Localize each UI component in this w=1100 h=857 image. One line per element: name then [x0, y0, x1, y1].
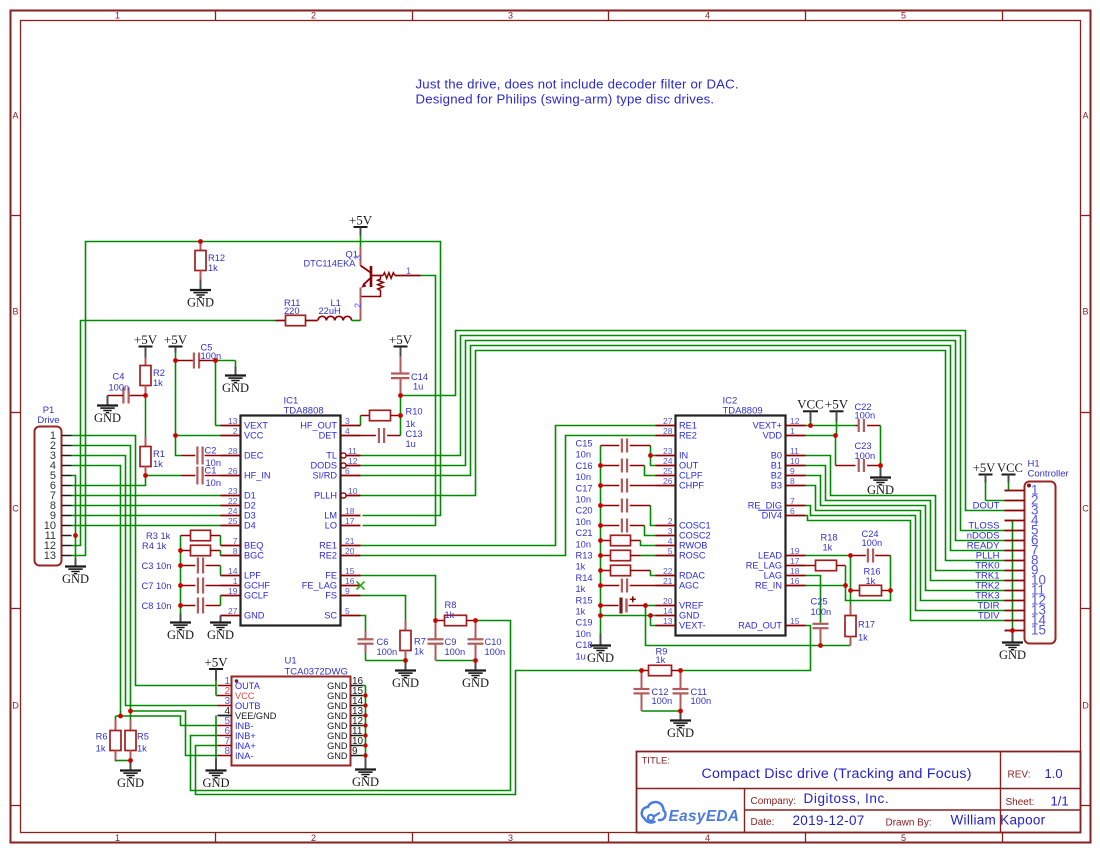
svg-text:13: 13	[663, 616, 673, 626]
svg-text:10: 10	[348, 486, 358, 496]
svg-text:C15: C15	[576, 439, 593, 449]
svg-text:RE2: RE2	[679, 431, 697, 441]
svg-text:B3: B3	[771, 481, 782, 491]
svg-text:R2: R2	[153, 368, 165, 378]
svg-text:GND: GND	[94, 411, 121, 425]
svg-text:C19: C19	[576, 618, 593, 628]
svg-text:1k: 1k	[866, 576, 876, 586]
svg-text:24: 24	[663, 456, 673, 466]
svg-text:RE2: RE2	[319, 551, 337, 561]
svg-text:Controller: Controller	[1028, 469, 1069, 480]
svg-text:RE_IN: RE_IN	[755, 581, 782, 591]
svg-text:GND: GND	[587, 651, 614, 665]
svg-text:11: 11	[348, 446, 357, 456]
svg-text:22: 22	[663, 566, 673, 576]
svg-text:GND: GND	[187, 296, 214, 310]
svg-text:7: 7	[233, 536, 238, 546]
svg-text:GND: GND	[679, 611, 700, 621]
svg-text:3: 3	[508, 11, 513, 21]
svg-text:EasyEDA: EasyEDA	[669, 808, 740, 825]
svg-text:2: 2	[311, 833, 316, 843]
svg-text:25: 25	[663, 466, 673, 476]
svg-text:DIV4: DIV4	[762, 511, 782, 521]
svg-text:26: 26	[228, 466, 238, 476]
svg-text:CLPF: CLPF	[679, 471, 703, 481]
svg-text:LM: LM	[324, 511, 337, 521]
svg-text:100n: 100n	[652, 696, 673, 706]
svg-text:2: 2	[353, 303, 363, 308]
svg-text:+5V: +5V	[389, 332, 413, 347]
svg-text:INA+: INA+	[235, 741, 256, 751]
svg-text:C: C	[12, 504, 19, 514]
svg-text:18: 18	[345, 506, 355, 516]
svg-text:GND: GND	[999, 648, 1026, 662]
svg-text:R4 1k: R4 1k	[142, 541, 167, 551]
svg-text:1: 1	[790, 426, 795, 436]
svg-text:RWOB: RWOB	[679, 541, 707, 551]
svg-text:REV:: REV:	[1008, 770, 1031, 781]
svg-text:D: D	[12, 701, 19, 711]
svg-text:2: 2	[233, 426, 238, 436]
svg-text:+5V: +5V	[204, 655, 228, 670]
svg-text:VEXT+: VEXT+	[753, 421, 782, 431]
svg-text:R15: R15	[576, 595, 593, 605]
svg-text:INA-: INA-	[235, 751, 253, 761]
svg-text:20: 20	[345, 546, 355, 556]
svg-text:B1: B1	[771, 461, 782, 471]
svg-text:10n: 10n	[576, 450, 592, 460]
svg-text:15: 15	[1031, 623, 1046, 638]
svg-text:1k: 1k	[823, 543, 833, 553]
svg-text:C25: C25	[811, 597, 828, 607]
svg-text:3: 3	[353, 255, 363, 260]
svg-text:23: 23	[663, 446, 673, 456]
svg-text:RDAC: RDAC	[679, 571, 705, 581]
svg-text:FS: FS	[325, 591, 337, 601]
svg-text:C9: C9	[445, 637, 457, 647]
svg-text:BGC: BGC	[244, 551, 264, 561]
svg-text:B: B	[1082, 307, 1088, 317]
svg-text:HF_IN: HF_IN	[244, 471, 271, 481]
svg-text:17: 17	[345, 516, 355, 526]
svg-text:RE_LAG: RE_LAG	[746, 561, 782, 571]
svg-text:HF_OUT: HF_OUT	[300, 421, 337, 431]
svg-text:D4: D4	[244, 521, 256, 531]
svg-text:18: 18	[790, 566, 800, 576]
svg-text:Just the drive, does not inclu: Just the drive, does not include decoder…	[416, 77, 739, 92]
svg-text:14: 14	[228, 566, 238, 576]
svg-text:1/1: 1/1	[1051, 794, 1069, 809]
svg-text:10n: 10n	[576, 539, 592, 549]
svg-text:GND: GND	[244, 611, 265, 621]
svg-text:DODS: DODS	[310, 461, 337, 471]
svg-text:C7 10n: C7 10n	[142, 581, 172, 591]
svg-text:C17: C17	[576, 483, 593, 493]
svg-text:R16: R16	[864, 567, 881, 577]
svg-text:C2: C2	[205, 446, 217, 456]
svg-text:RE1: RE1	[319, 541, 337, 551]
svg-text:10n: 10n	[576, 472, 592, 482]
svg-text:LEAD: LEAD	[758, 551, 782, 561]
svg-text:B2: B2	[771, 471, 782, 481]
svg-text:VEE/GND: VEE/GND	[235, 711, 277, 721]
svg-text:TCA0372DWG: TCA0372DWG	[285, 667, 348, 678]
svg-text:R5: R5	[137, 732, 149, 742]
svg-text:100n: 100n	[445, 647, 466, 657]
svg-text:C10: C10	[485, 637, 502, 647]
svg-text:C4: C4	[113, 372, 125, 382]
svg-text:19: 19	[228, 586, 238, 596]
svg-text:R3 1k: R3 1k	[146, 531, 171, 541]
svg-text:Designed for Philips (swing-ar: Designed for Philips (swing-arm) type di…	[416, 92, 715, 107]
svg-text:GND: GND	[327, 701, 348, 711]
svg-text:BEQ: BEQ	[244, 541, 263, 551]
svg-text:1k: 1k	[406, 419, 416, 429]
svg-text:GND: GND	[352, 775, 379, 789]
svg-text:+5V: +5V	[134, 332, 158, 347]
svg-text:A: A	[1082, 111, 1088, 121]
svg-text:COSC2: COSC2	[679, 531, 711, 541]
svg-text:IN: IN	[679, 451, 688, 461]
svg-text:+5V: +5V	[164, 332, 188, 347]
svg-text:LO: LO	[325, 521, 337, 531]
svg-text:GND: GND	[202, 776, 229, 790]
svg-text:INB-: INB-	[235, 721, 253, 731]
svg-text:GND: GND	[667, 726, 694, 740]
svg-text:10n: 10n	[576, 517, 592, 527]
svg-text:4: 4	[705, 833, 710, 843]
svg-text:Drive: Drive	[37, 415, 59, 426]
svg-text:U1: U1	[285, 656, 297, 667]
svg-text:+5V: +5V	[825, 397, 849, 412]
svg-text:10n: 10n	[576, 629, 592, 639]
svg-text:DTC114EKA: DTC114EKA	[304, 259, 357, 269]
svg-text:24: 24	[228, 506, 238, 516]
svg-text:C13: C13	[406, 429, 423, 439]
svg-text:+5V: +5V	[349, 213, 373, 228]
svg-text:21: 21	[663, 576, 673, 586]
svg-text:GCHF: GCHF	[244, 581, 270, 591]
svg-text:1u: 1u	[413, 382, 423, 392]
svg-text:100n: 100n	[201, 351, 222, 361]
svg-text:VREF: VREF	[679, 601, 704, 611]
svg-text:10n: 10n	[576, 495, 592, 505]
svg-text:C1: C1	[205, 466, 217, 476]
svg-text:TDA8809: TDA8809	[723, 406, 763, 417]
svg-text:2: 2	[668, 516, 673, 526]
svg-text:RAD_OUT: RAD_OUT	[738, 621, 782, 631]
svg-text:GND: GND	[327, 731, 348, 741]
svg-text:17: 17	[790, 556, 800, 566]
svg-text:VCC: VCC	[997, 461, 1023, 475]
svg-text:GND: GND	[327, 741, 348, 751]
svg-text:D2: D2	[244, 501, 256, 511]
svg-text:GND: GND	[222, 381, 249, 395]
svg-text:GND: GND	[167, 628, 194, 642]
svg-text:1k: 1k	[208, 263, 218, 273]
svg-text:1k: 1k	[858, 633, 868, 643]
svg-text:100n: 100n	[485, 647, 506, 657]
svg-text:8: 8	[233, 546, 238, 556]
svg-text:RE_DIG: RE_DIG	[748, 501, 782, 511]
svg-text:C14: C14	[411, 372, 428, 382]
svg-text:OUTA: OUTA	[235, 681, 261, 691]
svg-text:1k: 1k	[414, 647, 424, 657]
svg-text:9: 9	[345, 586, 350, 596]
svg-text:C: C	[1082, 504, 1089, 514]
svg-text:R18: R18	[821, 533, 838, 543]
svg-text:3: 3	[508, 833, 513, 843]
svg-text:R7: R7	[414, 637, 426, 647]
svg-text:PLLH: PLLH	[314, 491, 337, 501]
svg-text:VDD: VDD	[763, 431, 783, 441]
svg-text:8: 8	[790, 476, 795, 486]
svg-text:100n: 100n	[811, 607, 832, 617]
svg-text:11: 11	[790, 446, 799, 456]
svg-text:5: 5	[345, 606, 350, 616]
svg-text:R6: R6	[96, 732, 108, 742]
svg-text:C16: C16	[576, 461, 593, 471]
svg-text:SI/RD: SI/RD	[312, 471, 337, 481]
svg-text:GND: GND	[867, 483, 894, 497]
svg-text:3: 3	[668, 526, 673, 536]
svg-text:Date:: Date:	[751, 817, 775, 828]
svg-text:D1: D1	[244, 491, 256, 501]
svg-text:27: 27	[663, 416, 673, 426]
svg-text:8: 8	[224, 746, 230, 757]
svg-text:19: 19	[790, 546, 800, 556]
svg-text:1k: 1k	[576, 584, 586, 594]
svg-text:AGC: AGC	[679, 581, 699, 591]
svg-text:27: 27	[228, 606, 238, 616]
svg-text:GND: GND	[327, 711, 348, 721]
svg-text:CHPF: CHPF	[679, 481, 704, 491]
svg-text:DEC: DEC	[244, 451, 264, 461]
svg-text:GND: GND	[462, 676, 489, 690]
svg-text:OUTB: OUTB	[235, 701, 261, 711]
svg-text:B0: B0	[771, 451, 782, 461]
svg-text:22: 22	[228, 496, 238, 506]
svg-text:GND: GND	[327, 691, 348, 701]
svg-text:14: 14	[663, 606, 673, 616]
svg-text:GND: GND	[207, 628, 234, 642]
svg-text:13: 13	[228, 416, 238, 426]
svg-text:DOUT: DOUT	[973, 501, 1000, 512]
svg-text:1.0: 1.0	[1045, 766, 1063, 781]
svg-text:7: 7	[790, 496, 795, 506]
svg-text:VCC: VCC	[244, 431, 264, 441]
svg-text:William Kapoor: William Kapoor	[951, 813, 1046, 828]
svg-text:9: 9	[790, 466, 795, 476]
svg-text:1k: 1k	[96, 744, 106, 754]
svg-text:10n: 10n	[206, 478, 222, 488]
svg-text:4: 4	[668, 536, 673, 546]
svg-text:C18: C18	[576, 640, 593, 650]
svg-text:C6: C6	[377, 637, 389, 647]
svg-text:Digitoss, Inc.: Digitoss, Inc.	[804, 791, 890, 806]
svg-text:RE1: RE1	[679, 421, 697, 431]
svg-text:1k: 1k	[576, 562, 586, 572]
svg-text:10: 10	[790, 456, 800, 466]
svg-text:B: B	[12, 307, 18, 317]
svg-text:D: D	[1082, 701, 1089, 711]
svg-text:LPF: LPF	[244, 571, 261, 581]
svg-text:3: 3	[345, 416, 350, 426]
svg-text:1k: 1k	[153, 459, 163, 469]
svg-text:4: 4	[705, 11, 710, 21]
svg-text:INB+: INB+	[235, 731, 256, 741]
svg-text:12: 12	[348, 456, 358, 466]
svg-text:GND: GND	[327, 721, 348, 731]
svg-text:1: 1	[406, 266, 411, 276]
svg-text:100n: 100n	[862, 538, 883, 548]
svg-text:1u: 1u	[406, 439, 416, 449]
svg-text:28: 28	[228, 446, 238, 456]
svg-text:9: 9	[352, 746, 358, 757]
svg-text:TITLE:: TITLE:	[642, 756, 671, 767]
svg-text:6: 6	[345, 466, 350, 476]
svg-text:13: 13	[44, 550, 56, 562]
svg-text:100n: 100n	[855, 410, 876, 420]
svg-text:5: 5	[901, 11, 906, 21]
svg-text:4: 4	[345, 426, 350, 436]
svg-text:1k: 1k	[576, 607, 586, 617]
svg-text:22uH: 22uH	[319, 306, 341, 316]
svg-text:25: 25	[228, 516, 238, 526]
svg-text:R13: R13	[576, 551, 593, 561]
svg-text:1k: 1k	[656, 655, 666, 665]
svg-text:2: 2	[311, 11, 316, 21]
svg-text:C23: C23	[855, 441, 872, 451]
svg-text:16: 16	[345, 576, 355, 586]
svg-text:SC: SC	[324, 611, 337, 621]
svg-text:TDA8808: TDA8808	[284, 406, 324, 417]
svg-text:6: 6	[790, 506, 795, 516]
svg-text:FE_LAG: FE_LAG	[302, 581, 337, 591]
svg-text:+5V: +5V	[973, 461, 996, 475]
svg-text:1: 1	[115, 11, 120, 21]
svg-text:VEXT: VEXT	[244, 421, 268, 431]
svg-text:A: A	[12, 111, 18, 121]
svg-text:D3: D3	[244, 511, 256, 521]
svg-text:R8: R8	[445, 600, 457, 610]
svg-text:TL: TL	[326, 451, 337, 461]
svg-text:1: 1	[115, 833, 120, 843]
svg-text:220: 220	[284, 306, 300, 316]
svg-text:GND: GND	[117, 776, 144, 790]
svg-text:GND: GND	[327, 681, 348, 691]
svg-text:C20: C20	[576, 506, 593, 516]
svg-text:Company:: Company:	[751, 796, 797, 807]
svg-text:15: 15	[345, 566, 355, 576]
svg-text:21: 21	[345, 536, 355, 546]
svg-text:C3 10n: C3 10n	[142, 561, 172, 571]
svg-text:Compact Disc drive (Tracking a: Compact Disc drive (Tracking and Focus)	[702, 766, 972, 782]
svg-text:20: 20	[663, 596, 673, 606]
svg-text:R17: R17	[858, 620, 875, 630]
svg-text:1k: 1k	[445, 610, 455, 620]
svg-text:26: 26	[663, 476, 673, 486]
svg-text:GND: GND	[62, 572, 89, 586]
svg-text:ROSC: ROSC	[679, 551, 706, 561]
svg-text:OUT: OUT	[679, 461, 699, 471]
svg-text:28: 28	[663, 426, 673, 436]
svg-text:R12: R12	[208, 253, 225, 263]
svg-text:COSC1: COSC1	[679, 521, 711, 531]
svg-text:100n: 100n	[855, 451, 876, 461]
svg-text:GCLF: GCLF	[244, 591, 269, 601]
svg-text:100n: 100n	[377, 647, 398, 657]
svg-text:15: 15	[790, 616, 800, 626]
svg-text:C21: C21	[576, 528, 593, 538]
svg-text:2019-12-07: 2019-12-07	[793, 813, 865, 828]
svg-text:R14: R14	[576, 573, 593, 583]
svg-text:VCC: VCC	[797, 397, 824, 412]
svg-text:12: 12	[790, 416, 800, 426]
svg-text:1k: 1k	[153, 378, 163, 388]
svg-text:Drawn By:: Drawn By:	[886, 818, 932, 829]
svg-text:FE: FE	[325, 571, 337, 581]
svg-text:100n: 100n	[109, 383, 130, 393]
svg-text:100n: 100n	[691, 696, 712, 706]
svg-text:1k: 1k	[137, 744, 147, 754]
svg-text:C8 10n: C8 10n	[142, 601, 172, 611]
svg-text:TDIV: TDIV	[978, 611, 1000, 622]
svg-text:16: 16	[790, 576, 800, 586]
svg-text:23: 23	[228, 486, 238, 496]
svg-text:DET: DET	[319, 431, 338, 441]
svg-text:5: 5	[668, 546, 673, 556]
svg-text:R1: R1	[153, 449, 165, 459]
svg-text:LAG: LAG	[764, 571, 782, 581]
svg-text:1: 1	[233, 576, 238, 586]
svg-text:GND: GND	[392, 676, 419, 690]
svg-text:Sheet:: Sheet:	[1006, 797, 1035, 808]
svg-text:GND: GND	[327, 751, 348, 761]
svg-text:R10: R10	[406, 407, 423, 417]
svg-text:5: 5	[901, 833, 906, 843]
svg-text:VEXT-: VEXT-	[679, 621, 706, 631]
svg-text:VCC: VCC	[235, 691, 255, 701]
svg-text:1u: 1u	[576, 651, 586, 661]
